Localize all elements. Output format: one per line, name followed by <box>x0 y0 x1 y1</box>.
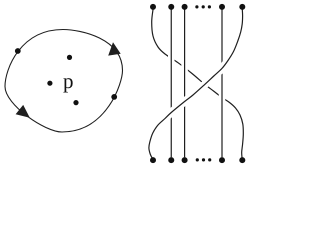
braid strand 2 (vertical) white casing <box>168 9 175 157</box>
braid strand 3 (vertical) <box>184 9 186 157</box>
label p <box>63 78 72 92</box>
ellipsis dots top <box>195 5 198 8</box>
braid bottom endpoint 2 <box>168 157 174 163</box>
braid top endpoint 1 <box>150 4 156 10</box>
braid strand 4 (vertical) white casing <box>219 9 226 157</box>
braid strand n (top-right to bottom-left, passes over) <box>149 10 243 159</box>
braid bottom endpoint 3 <box>182 157 188 163</box>
braid top endpoint n-1 <box>219 4 225 10</box>
braid strand 2 (vertical) <box>170 9 172 157</box>
puncture below p <box>73 100 78 105</box>
puncture left of p <box>47 81 52 86</box>
marked point on boundary (upper left) <box>15 48 21 54</box>
arrowhead on boundary (lower left, pointing down-right) <box>16 105 30 118</box>
braid top endpoint 3 <box>182 4 188 10</box>
braid strand 3 (vertical) white casing <box>181 9 188 157</box>
ellipsis dots bottom <box>196 158 199 161</box>
braid strand 1 (top-left to bottom-right, passes under) <box>152 10 244 158</box>
braid strand n (top-right to bottom-left, passes over) white casing <box>149 10 243 159</box>
braid strand 4 (vertical) <box>221 9 223 157</box>
puncture above p <box>67 55 72 60</box>
braid bottom endpoint 1 <box>150 157 156 163</box>
arrowhead on boundary (upper right, pointing up) <box>108 42 121 55</box>
marked point on boundary (right) <box>111 94 117 100</box>
braid top endpoint 2 <box>168 4 174 10</box>
braid top endpoint n <box>239 4 245 10</box>
disk boundary curve <box>5 30 123 133</box>
braid bottom endpoint n <box>239 157 245 163</box>
braid bottom endpoint n-1 <box>219 157 225 163</box>
